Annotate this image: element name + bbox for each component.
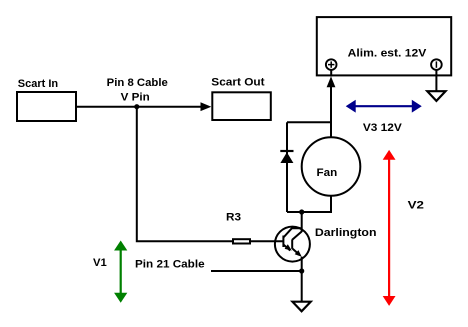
resistor R3	[233, 239, 250, 243]
T2 emitter	[293, 249, 300, 255]
ground at emitter	[293, 302, 311, 312]
wire fan bottom	[330, 196, 332, 212]
terminal minus	[431, 59, 442, 70]
T2 collector	[292, 232, 302, 240]
wire branch to diode (top)	[287, 121, 332, 123]
red measurement arrow V2	[384, 151, 395, 305]
box Alim. est. 12V	[317, 17, 451, 75]
svg-text:Scart Out: Scart Out	[211, 77, 265, 89]
diode D1	[280, 152, 293, 163]
wire Pin 8 from Scart In to Scart Out	[77, 106, 203, 108]
wire plus terminal down to fan, with up arrowhead	[327, 76, 336, 87]
green measurement arrow V1	[115, 241, 126, 301]
T1 collector path	[283, 228, 301, 237]
T1 emitter arrow	[285, 244, 292, 250]
diode D1 cathode bar	[280, 150, 293, 152]
svg-text:Alim. est. 12V: Alim. est. 12V	[348, 48, 427, 60]
svg-text:V1: V1	[93, 257, 107, 269]
svg-text:R3: R3	[226, 212, 241, 224]
box Scart Out	[212, 92, 270, 120]
wire emitter lead to ground	[301, 257, 303, 302]
junction node Pin 21	[299, 268, 304, 273]
base bar 2	[291, 240, 293, 249]
wire diode branch vertical	[286, 122, 288, 212]
svg-text:V3 12V: V3 12V	[363, 122, 403, 134]
junction node collector	[299, 209, 304, 214]
terminal plus	[326, 59, 337, 70]
svg-text:V2: V2	[408, 199, 424, 211]
svg-text:Darlington: Darlington	[315, 227, 377, 239]
svg-text:Pin 21 Cable: Pin 21 Cable	[135, 258, 205, 270]
T1 emitter	[283, 245, 290, 251]
svg-text:Fan: Fan	[317, 167, 338, 179]
transistor Q1 Darlington	[275, 227, 310, 262]
T2 emitter arrow	[295, 250, 302, 257]
wire collector lead	[301, 212, 303, 232]
fan M1	[302, 137, 361, 196]
wire Pin 21 Cable	[211, 270, 302, 272]
arrowhead into Scart Out	[201, 102, 212, 111]
junction node V Pin	[134, 104, 139, 109]
svg-text:Pin 8 Cable: Pin 8 Cable	[107, 77, 168, 89]
wire from V Pin junction down and right to R3	[137, 107, 232, 242]
ground at power supply	[427, 91, 445, 101]
svg-text:Scart In: Scart In	[18, 78, 59, 90]
svg-text:V Pin: V Pin	[121, 92, 150, 104]
wire R3 to transistor base	[250, 240, 283, 242]
box Scart In	[17, 92, 76, 121]
base bar 1	[282, 236, 284, 248]
blue measurement arrow V3	[347, 101, 421, 112]
wire bottom of diode/fan loop	[287, 211, 332, 213]
wire minus terminal to ground	[435, 70, 437, 91]
